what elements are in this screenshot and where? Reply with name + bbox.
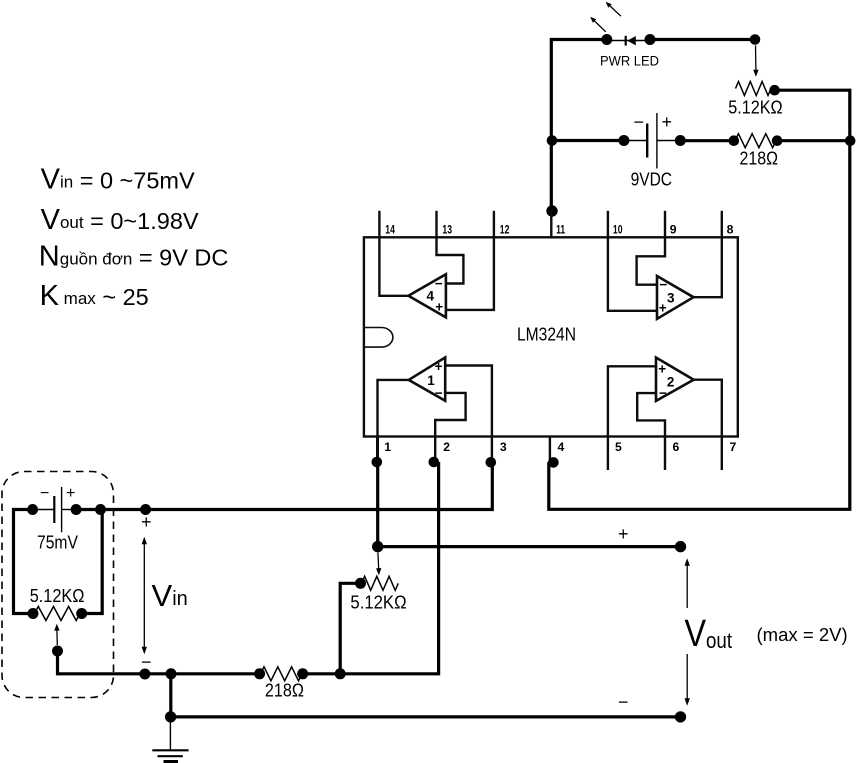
svg-text:Nguồn đơn = 9V DC: Nguồn đơn = 9V DC (39, 241, 229, 273)
junction node rail-battery (547, 135, 558, 146)
op-amp U1 triangle (409, 357, 446, 400)
svg-text:11: 11 (556, 223, 565, 237)
dashed source box (2, 472, 114, 698)
op-amp U3 input minus route from pin 9 (637, 237, 665, 284)
svg-text:218Ω: 218Ω (740, 147, 779, 168)
svg-text:−: − (618, 692, 629, 712)
LED D1 triangle (627, 36, 636, 45)
node: pin 11 net (546, 205, 557, 216)
wire: R1 to right rail (775, 90, 850, 141)
svg-text:1: 1 (384, 440, 391, 454)
svg-text:10: 10 (613, 223, 623, 237)
node: pin 4 (548, 457, 559, 468)
pin 13 stub (435, 211, 437, 238)
arrow: R3 wiper (54, 624, 59, 645)
node: Vout plus (675, 541, 686, 552)
node: LED cathode side (645, 34, 656, 45)
node: B1 positive terminal (675, 135, 686, 146)
svg-text:3: 3 (500, 440, 507, 454)
op-amp U3 triangle (657, 276, 694, 319)
svg-text:−: − (435, 276, 443, 291)
wire: wiper down to minus rail (58, 651, 260, 674)
svg-text:K max ~ 25: K max ~ 25 (40, 280, 149, 312)
wire: ground rail down (169, 674, 172, 717)
svg-text:12: 12 (500, 223, 510, 237)
svg-text:+: + (435, 299, 443, 314)
LED D1 cathode bar (625, 36, 627, 46)
svg-text:75mV: 75mV (37, 531, 78, 552)
node: source box output top (95, 504, 106, 515)
node: R4 left (254, 668, 265, 679)
svg-text:5.12KΩ: 5.12KΩ (30, 585, 85, 606)
svg-text:−: − (435, 386, 443, 401)
svg-text:14: 14 (385, 223, 395, 237)
svg-text:9VDC: 9VDC (631, 169, 672, 190)
op-amp U2 input plus route from pin 5 (608, 366, 657, 436)
op-amp U4 input minus route from pin 13 (437, 237, 464, 283)
svg-text:4: 4 (558, 440, 565, 454)
op-amp U2 input minus route from pin 6 (637, 393, 665, 436)
wire: R2 right to rail junction (777, 139, 850, 142)
svg-text:Vout = 0~1.98V: Vout = 0~1.98V (41, 204, 199, 236)
wire: source loop right side (76, 510, 102, 614)
svg-text:+: + (66, 485, 75, 502)
op-amp U3 input plus route from pin 10 (608, 237, 657, 310)
op-amp U1 input plus route from pin 3 (446, 366, 492, 437)
node: Vin plus probe (140, 504, 151, 515)
op-amp U3 output route to pin 8 (694, 237, 722, 297)
svg-text:Vout: Vout (685, 613, 733, 655)
pin 1 stub (376, 437, 379, 462)
svg-text:LM324N: LM324N (517, 324, 576, 345)
node: op1 output (372, 541, 383, 552)
node: R3 left (28, 608, 39, 619)
pin 7 stub (721, 437, 723, 471)
node: ground junction (165, 711, 176, 722)
svg-text:2: 2 (443, 440, 450, 454)
wire: R5 left leg to minus rail (340, 583, 360, 674)
svg-text:+: + (618, 524, 629, 544)
pin 14 stub (378, 211, 380, 238)
LED light arrow 1 (590, 17, 606, 32)
svg-text:218Ω: 218Ω (265, 679, 304, 700)
svg-text:−: − (659, 386, 667, 401)
op-amp U4 output route to pin 14 (379, 237, 408, 295)
node: B2 right (71, 504, 82, 515)
node: R1 right end (769, 85, 780, 96)
svg-text:7: 7 (730, 440, 737, 454)
op-amp U2 output route to pin 7 (694, 380, 722, 437)
potentiometer R3 5.12K zigzag (35, 607, 81, 621)
svg-text:3: 3 (667, 290, 675, 305)
wire: right rail down to pin4 feed (549, 141, 850, 510)
wire: output node to Vout plus (378, 545, 681, 548)
potentiometer R1 5.12K zigzag (736, 82, 772, 96)
battery B1 positive plate (656, 113, 658, 169)
svg-text:6: 6 (673, 440, 680, 454)
wire: top rail LED right segment (650, 38, 755, 41)
resistor R2 218 ohm zigzag (735, 134, 776, 148)
op-amp U4 triangle (408, 274, 446, 317)
svg-text:+: + (141, 512, 152, 532)
svg-text:4: 4 (427, 289, 435, 304)
arrow: R5 wiper from output (376, 553, 381, 576)
op-amp U4 input plus route from pin 12 (447, 237, 494, 310)
node: R2 right (772, 135, 783, 146)
pin 5 stub (607, 437, 609, 471)
svg-text:5.12KΩ: 5.12KΩ (350, 592, 406, 613)
node: R3 wiper dot (52, 646, 63, 657)
LED light arrow 2 (606, 2, 621, 16)
svg-text:13: 13 (442, 223, 452, 237)
junction node top-right (750, 34, 761, 45)
svg-text:8: 8 (727, 223, 734, 237)
LED D1 thin link (607, 40, 650, 42)
resistor R4 218 ohm zigzag (261, 667, 303, 681)
svg-text:2: 2 (667, 374, 675, 389)
node: minus rail junction to ground (166, 668, 177, 679)
svg-text:9: 9 (670, 223, 677, 237)
arrow: Vin measure double arrow (142, 537, 147, 655)
wire: pin 1 down to output node (376, 462, 379, 547)
node: pin 3 (486, 457, 497, 468)
battery B1 negative plate (646, 124, 648, 158)
op-amp U2 triangle (656, 358, 694, 401)
svg-text:+: + (659, 301, 667, 316)
wire: top power rail left segment (551, 40, 607, 211)
op-amp U1 input minus route from pin 2 (435, 393, 465, 437)
op-amp U1 output route to pin 1 (378, 380, 409, 437)
svg-text:PWR LED: PWR LED (600, 52, 659, 68)
node: R2 left (729, 135, 740, 146)
pin 8 stub (721, 211, 723, 238)
wire: battery row from rail to B1 (551, 139, 624, 142)
wire: minus rail 218 to pin 2 (303, 462, 439, 674)
package notch (364, 328, 393, 348)
node: pin 1 (372, 457, 383, 468)
node: R5 leg junction (335, 668, 346, 679)
pin 3 stub (491, 437, 493, 462)
label: Vout (685, 613, 733, 655)
svg-text:Vin: Vin (152, 578, 188, 613)
junction node right rail / 218 ohm (845, 135, 856, 146)
node: pin 2 (429, 457, 440, 468)
battery B2 positive plate (61, 487, 63, 532)
svg-text:+: + (662, 112, 673, 132)
node: B2 left (27, 504, 38, 515)
svg-text:+: + (435, 359, 443, 374)
battery B2 75mV thin links (33, 509, 54, 511)
svg-text:−: − (40, 485, 49, 502)
node: R4 right (297, 668, 308, 679)
arrow: Vout measure double arrow (685, 558, 690, 706)
pin 12 stub (493, 211, 495, 238)
pin 11 stub (550, 211, 552, 238)
wire: Vout minus rail (171, 715, 681, 718)
op-amp U-package body LM324N (364, 237, 738, 436)
svg-text:−: − (634, 112, 645, 132)
pin 2 stub (434, 437, 436, 462)
node: Vin minus probe (139, 669, 150, 680)
svg-text:−: − (659, 277, 667, 292)
arrow: wiper of potentiometer R-5.12K top (753, 46, 758, 77)
svg-text:5: 5 (615, 440, 622, 454)
battery B1 9VDC thin links (624, 140, 647, 142)
node: R5 left (355, 578, 366, 589)
pin 4 stub (549, 437, 551, 462)
node: R3 right (76, 608, 87, 619)
wire: source loop left side (14, 510, 34, 614)
svg-text:(max = 2V): (max = 2V) (757, 625, 848, 645)
wire: Vin plus rail to pin 3 (101, 462, 493, 510)
potentiometer R5 5.12K zigzag (362, 576, 399, 590)
pin 6 stub (664, 437, 666, 471)
node: B1 negative terminal (618, 135, 629, 146)
svg-text:5.12KΩ: 5.12KΩ (728, 97, 783, 118)
svg-text:Vin = 0 ~75mV: Vin = 0 ~75mV (41, 164, 195, 196)
annotation text block (39, 164, 229, 312)
wire: B1 plus to R2 218 (680, 139, 734, 142)
battery B2 negative plate (53, 496, 55, 523)
node: LED anode (601, 34, 612, 45)
ground symbol (152, 723, 188, 762)
node: Vout minus (675, 711, 686, 722)
svg-text:+: + (658, 362, 666, 377)
pin 9 stub (664, 211, 666, 238)
pin 10 stub (607, 211, 609, 238)
